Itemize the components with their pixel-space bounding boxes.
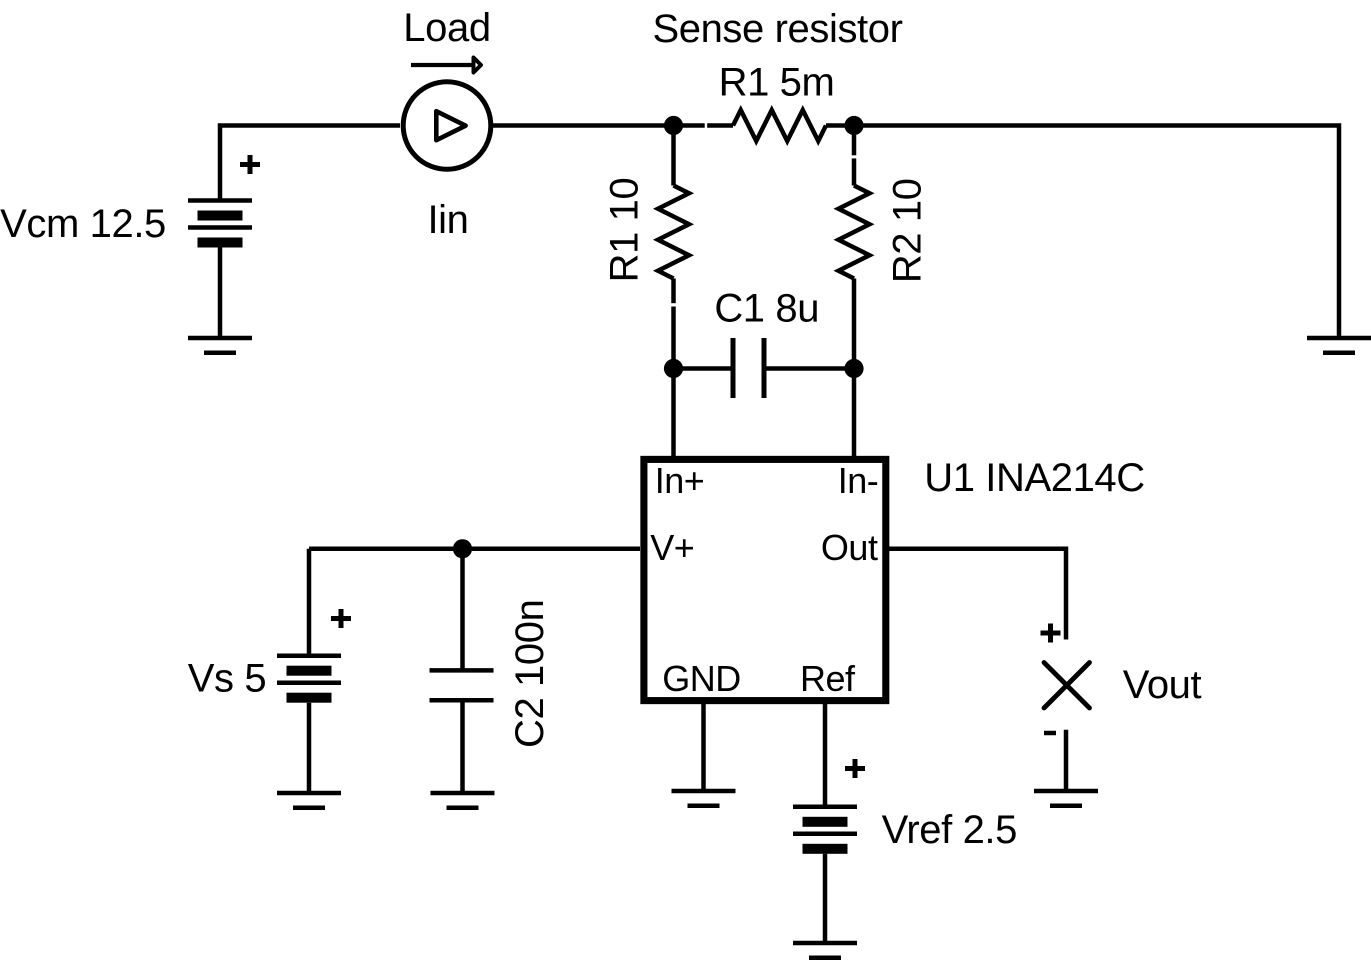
wire Vs battery top xyxy=(307,549,312,656)
op-amp U1 INA214C body xyxy=(644,459,886,700)
ground below Vout xyxy=(1034,791,1098,806)
svg-text:R1 10: R1 10 xyxy=(602,178,646,283)
battery Vcm 12.5 plates xyxy=(188,201,252,248)
node C junction dot xyxy=(664,359,683,378)
ground below Vcm xyxy=(188,338,252,353)
wire R1 to node C xyxy=(671,279,676,369)
svg-text:C1 8u: C1 8u xyxy=(714,287,819,331)
wire node C to capacitor C1 xyxy=(674,366,731,371)
resistor R2 10 vertical zigzag xyxy=(839,186,870,279)
svg-text:Out: Out xyxy=(821,527,878,568)
ground below GND pin xyxy=(672,791,736,806)
svg-text:Iin: Iin xyxy=(427,198,468,242)
wire capacitor C1 to node D xyxy=(767,366,855,371)
wire Vout to ground xyxy=(1064,730,1069,791)
wire node B down to R2 xyxy=(852,126,857,186)
wire battery Vs to ground xyxy=(307,703,312,793)
ground below Vs xyxy=(277,793,341,808)
battery Vs 5 plates xyxy=(277,656,341,703)
svg-text:Ref: Ref xyxy=(800,658,856,699)
svg-text:In+: In+ xyxy=(655,460,705,501)
svg-text:Load: Load xyxy=(403,6,490,50)
node Vout X marker xyxy=(1044,663,1090,709)
ground below Vref xyxy=(793,943,857,958)
ground below C2 xyxy=(431,793,495,808)
svg-text:Vref 2.5: Vref 2.5 xyxy=(882,808,1017,852)
wire node E down to capacitor C2 xyxy=(460,549,465,671)
plus sign of Vout xyxy=(1041,624,1061,643)
load current direction arrow xyxy=(411,63,472,67)
svg-text:Vs 5: Vs 5 xyxy=(188,657,266,701)
svg-text:R1 5m: R1 5m xyxy=(719,61,835,105)
wire battery Vref to ground xyxy=(823,854,828,943)
resistor R1 5m horizontal zigzag xyxy=(733,110,826,141)
wire node C to pin In+ xyxy=(671,369,676,459)
svg-text:GND: GND xyxy=(662,658,741,699)
wire top: current source to sense resistor, node A xyxy=(492,123,733,128)
terminal gap marks xyxy=(674,126,855,307)
wire node D to pin In- xyxy=(852,369,857,459)
wire battery Vcm to ground xyxy=(218,248,223,339)
wire node A down to R1 xyxy=(671,126,676,186)
plus sign of Vref xyxy=(845,759,865,778)
current source arrow triangle xyxy=(436,111,465,140)
capacitor C1 8u plates xyxy=(733,338,764,398)
wire top: battery Vcm to current source xyxy=(220,126,400,201)
node D junction dot xyxy=(844,359,863,378)
svg-text:Vout: Vout xyxy=(1123,663,1202,707)
node B junction dot xyxy=(844,116,863,135)
wire R2 to node D xyxy=(852,279,857,369)
svg-text:C2 100n: C2 100n xyxy=(508,600,552,748)
plus sign of Vcm xyxy=(240,155,260,174)
svg-text:U1 INA214C: U1 INA214C xyxy=(924,456,1145,500)
current source U Iin circle xyxy=(403,82,491,170)
battery Vref 2.5 plates xyxy=(793,807,857,854)
wire V+ pin xyxy=(309,547,640,552)
svg-text:Sense resistor: Sense resistor xyxy=(652,7,902,51)
wire Out pin to Vout xyxy=(889,549,1066,640)
ground top right xyxy=(1307,338,1371,353)
svg-text:R2 10: R2 10 xyxy=(886,178,930,283)
svg-text:V+: V+ xyxy=(650,527,694,568)
wire top: sense resistor right to right corner and down to ground xyxy=(826,126,1339,339)
capacitor C2 100n plates xyxy=(430,670,494,700)
wire capacitor C2 to ground xyxy=(460,700,465,793)
resistor R1 10 vertical zigzag xyxy=(658,186,689,279)
wire GND pin to ground xyxy=(701,702,706,791)
node E junction dot on V+ wire xyxy=(453,539,472,558)
wire Ref pin to battery Vref xyxy=(823,702,828,807)
plus sign of Vs xyxy=(331,609,351,628)
svg-text:In-: In- xyxy=(838,460,879,501)
minus sign of Vout xyxy=(1044,731,1056,736)
svg-text:Vcm 12.5: Vcm 12.5 xyxy=(0,202,166,246)
node A junction dot xyxy=(664,116,683,135)
